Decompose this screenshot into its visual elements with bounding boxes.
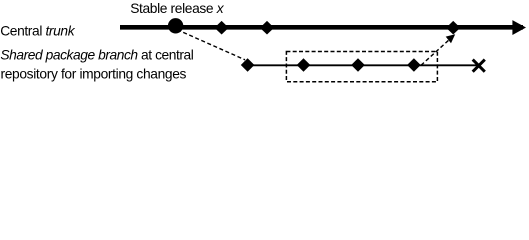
svg-text:Shared package branch at centr: Shared package branch at central xyxy=(0,47,193,62)
svg-text:repository for importing chang: repository for importing changes xyxy=(1,67,187,82)
svg-text:Central trunk: Central trunk xyxy=(0,23,76,38)
svg-text:Stable release x: Stable release x xyxy=(130,1,225,16)
